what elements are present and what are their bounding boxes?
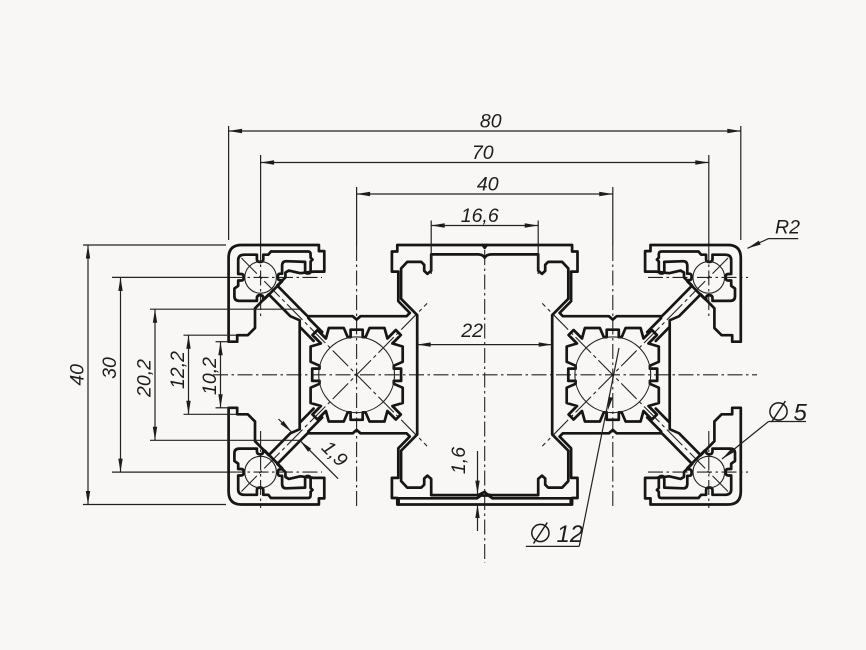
- corner hole d5: [245, 456, 277, 488]
- extension line x=75: [708, 155, 710, 246]
- dimension 40: [83, 244, 226, 246]
- diagonal axis BL: [241, 303, 427, 491]
- diagonal axis TR: [542, 258, 728, 446]
- vertical centerline x=40: [484, 250, 486, 563]
- svg-text:5: 5: [794, 400, 808, 427]
- dimension 80: [228, 126, 230, 240]
- svg-text:40: 40: [67, 364, 89, 386]
- svg-text:22: 22: [460, 320, 483, 342]
- extension line y=5 left: [112, 276, 229, 278]
- svg-text:R2: R2: [775, 217, 800, 239]
- dimension 10,2: [216, 341, 232, 343]
- svg-text:80: 80: [480, 111, 502, 133]
- web edge: [301, 328, 314, 341]
- dimension 1,6: [477, 451, 479, 494]
- horizontal centerline y=35 left: [229, 471, 322, 473]
- svg-text:40: 40: [477, 174, 499, 196]
- svg-text:16,6: 16,6: [461, 205, 499, 227]
- svg-text:12,2: 12,2: [167, 351, 189, 389]
- corner module cavity ring: [657, 449, 735, 498]
- dimension 1,9: [279, 419, 292, 432]
- bottom face recess: [399, 496, 571, 505]
- diagonal axis BR: [542, 303, 728, 491]
- extension line y=35 left: [112, 471, 229, 473]
- horizontal centerline y=5 right: [648, 276, 748, 278]
- svg-text:12: 12: [557, 521, 584, 548]
- svg-text:10,2: 10,2: [199, 357, 221, 395]
- dimension 16,6: [430, 221, 432, 275]
- dimension 40: [357, 193, 613, 195]
- web edge: [647, 417, 661, 431]
- web edge: [301, 409, 314, 422]
- vertical centerline x=5 top hole: [260, 246, 262, 318]
- corner module cavity ring: [657, 252, 735, 301]
- svg-text:20,2: 20,2: [134, 359, 156, 398]
- core star left: [311, 328, 403, 422]
- vertical centerline x=5 bottom hole: [260, 431, 262, 508]
- corner hole d5: [693, 262, 725, 294]
- svg-text:30: 30: [99, 357, 121, 379]
- corner module cavity ring: [234, 449, 312, 498]
- central 22mm cavity: [401, 254, 568, 495]
- web edge: [308, 417, 322, 431]
- horizontal centerline y=20: [213, 374, 757, 376]
- web edge: [308, 318, 322, 332]
- vertical centerline x=75 top hole: [708, 246, 710, 318]
- core circle d12: [575, 337, 651, 413]
- horizontal centerline y=35 right: [648, 471, 748, 473]
- corner module cavity ring: [234, 252, 312, 301]
- vertical centerline x=20 core: [356, 246, 358, 508]
- leader d5: [722, 422, 769, 460]
- extension line x=5: [260, 155, 262, 246]
- core star right: [567, 328, 659, 422]
- dimension 70: [261, 162, 709, 164]
- corner hole d5: [693, 456, 725, 488]
- extension line x=60: [612, 187, 614, 246]
- corner hole d5: [245, 262, 277, 294]
- dimension 30: [120, 277, 122, 472]
- dimension 12,2: [184, 334, 237, 336]
- svg-text:1,6: 1,6: [448, 447, 470, 474]
- core circle d12: [319, 337, 395, 413]
- extension line x=20: [356, 187, 358, 246]
- vertical centerline x=75 bottom hole: [708, 431, 710, 508]
- vertical centerline x=60 core: [612, 246, 614, 508]
- web edge: [656, 409, 669, 422]
- leader R2: [748, 239, 769, 249]
- horizontal centerline y=5 left: [229, 276, 322, 278]
- outer profile contour: [229, 245, 741, 505]
- web edge: [647, 318, 661, 332]
- top face centre nick: [483, 245, 487, 248]
- diagonal axis TL: [241, 258, 427, 446]
- leader d12: [579, 348, 619, 546]
- svg-text:70: 70: [472, 142, 494, 164]
- dimension 20,2: [150, 308, 300, 310]
- dimension 22: [417, 344, 552, 346]
- web edge: [656, 328, 669, 341]
